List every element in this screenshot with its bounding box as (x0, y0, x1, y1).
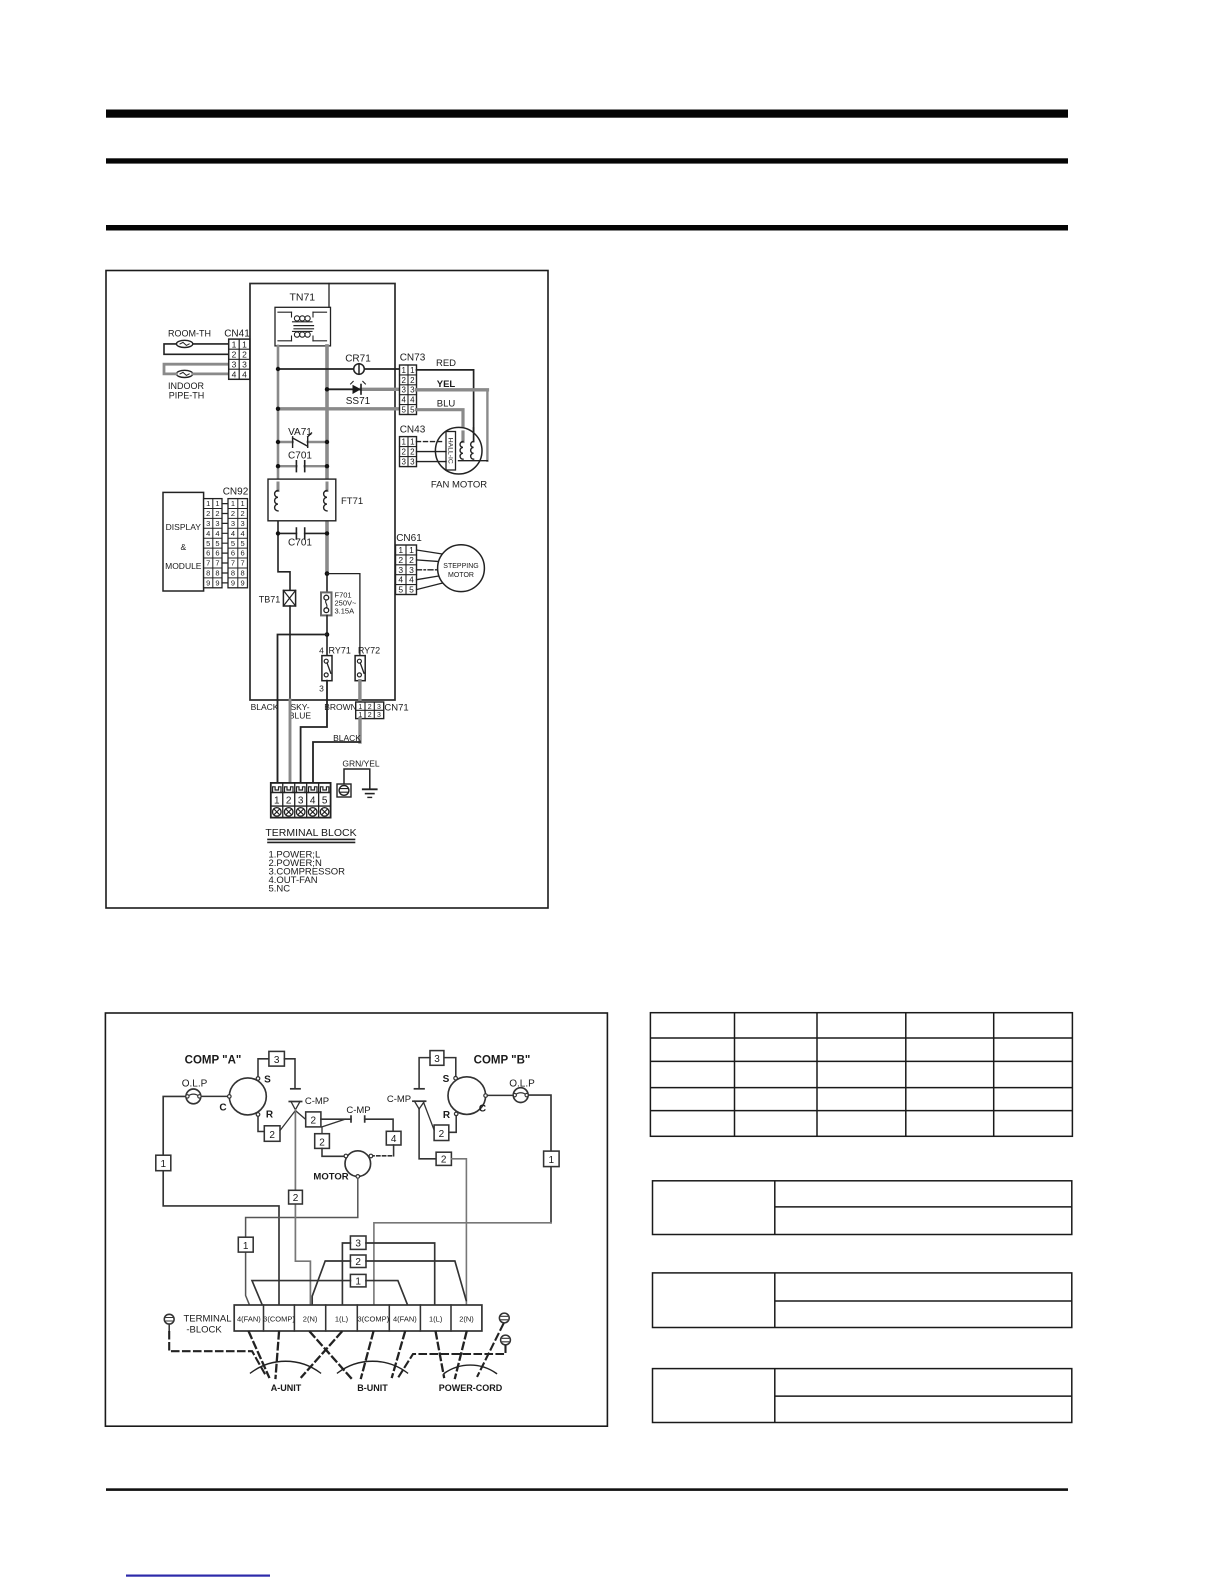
svg-text:CR71: CR71 (345, 354, 371, 365)
svg-text:FT71: FT71 (341, 496, 363, 507)
svg-text:5.NC: 5.NC (269, 884, 291, 895)
svg-text:2(N): 2(N) (459, 1314, 474, 1323)
svg-text:8: 8 (231, 569, 235, 578)
transformer TN71 (275, 292, 331, 346)
svg-text:6: 6 (215, 549, 219, 558)
svg-text:4(FAN): 4(FAN) (237, 1314, 261, 1323)
svg-text:1: 1 (410, 438, 415, 447)
ground symbol (363, 789, 377, 797)
lower diagram frame (105, 1013, 607, 1426)
wire SKY-BLUE to terminal 2 (289, 700, 292, 783)
svg-text:C-MP: C-MP (305, 1096, 329, 1107)
legend terminal block (269, 850, 346, 895)
wire OLP-A left loop to terminal 3(COMP)A (163, 1096, 279, 1305)
capacitor C701 lower (278, 528, 327, 549)
svg-text:4: 4 (310, 795, 316, 806)
svg-text:BROWN: BROWN (324, 702, 357, 712)
svg-text:2: 2 (206, 509, 210, 518)
wire box4 to motor right terminal (393, 1145, 395, 1156)
svg-text:R: R (266, 1110, 274, 1121)
svg-text:3: 3 (355, 1239, 361, 1250)
table 1 grid 5x5 (650, 1013, 1072, 1137)
terminal numbers 1-5 (274, 795, 328, 806)
node dot left bus CR71 (276, 367, 280, 371)
box 3 comp A (269, 1051, 285, 1066)
svg-text:3(COMP): 3(COMP) (357, 1314, 389, 1323)
wire box2 diagonal to C-MP A (280, 1111, 295, 1131)
svg-text:C701: C701 (288, 451, 312, 462)
table 2 (653, 1181, 1072, 1235)
box 2 comp B (434, 1125, 449, 1141)
wire link2 right to 2(N)B (366, 1261, 466, 1301)
box 1 on OLP-A wire (156, 1155, 171, 1171)
svg-text:4: 4 (232, 369, 237, 379)
fuse F701 250V 3.15A (321, 591, 357, 616)
thermistor INDOOR PIPE-TH (176, 370, 192, 377)
wire R to box 2 (258, 1116, 264, 1131)
varistor VA71 (278, 427, 327, 447)
wire motor bottom to terminal 4(FAN)A (246, 1178, 358, 1305)
svg-text:CN43: CN43 (400, 425, 426, 436)
svg-text:6: 6 (231, 549, 235, 558)
thermistor ROOM-TH (176, 340, 192, 347)
motor FAN MOTOR (431, 427, 487, 490)
svg-text:2: 2 (410, 376, 415, 385)
wire RY71 to terminal 3 (301, 681, 327, 783)
svg-text:TB71: TB71 (259, 595, 281, 605)
wire C-MP B down to box 2b (419, 1109, 436, 1159)
svg-text:2: 2 (286, 795, 292, 806)
coil fan motor right winding (471, 442, 474, 460)
wire RED to fan motor (417, 370, 474, 442)
svg-text:3: 3 (377, 712, 381, 719)
wire left bus below FT71 to TB71 (278, 511, 290, 591)
wire link3 right to 1(L)B (366, 1243, 435, 1305)
svg-text:1: 1 (355, 1277, 361, 1288)
svg-text:ROOM-TH: ROOM-TH (168, 329, 211, 339)
wire link3 left to 1(L)A (342, 1243, 350, 1305)
svg-text:6: 6 (241, 549, 245, 558)
svg-text:2: 2 (409, 555, 414, 565)
wire link1 left to 4(FAN)A (252, 1281, 350, 1305)
svg-text:8: 8 (241, 569, 245, 578)
box 2 motor left upper (306, 1112, 321, 1127)
svg-text:1(L): 1(L) (429, 1314, 443, 1323)
box 2 link row (350, 1255, 366, 1268)
wire motor capacitor to box 4 (365, 1119, 393, 1131)
svg-text:COMP "A": COMP "A" (185, 1055, 242, 1067)
svg-text:1(L): 1(L) (335, 1314, 349, 1323)
svg-text:3: 3 (241, 519, 245, 528)
svg-text:2: 2 (410, 448, 415, 457)
svg-text:3: 3 (410, 458, 415, 467)
node dots C701 upper (276, 464, 280, 468)
wire CN71 to terminal 4 (313, 742, 360, 783)
capacitor C701 upper (278, 451, 327, 472)
svg-text:BLACK: BLACK (251, 702, 279, 712)
svg-text:1: 1 (215, 499, 219, 508)
svg-text:9: 9 (206, 579, 210, 588)
svg-text:2: 2 (398, 555, 403, 565)
svg-text:9: 9 (241, 579, 245, 588)
svg-text:C: C (479, 1104, 486, 1115)
box 1 on motor wire (238, 1237, 253, 1252)
wire C-MP A down (295, 1110, 310, 1305)
svg-text:B-UNIT: B-UNIT (357, 1383, 388, 1393)
dashed earth wire left to A-UNIT (169, 1332, 265, 1375)
wire box2c to motor left terminal (322, 1148, 345, 1156)
second rule (106, 158, 1068, 163)
svg-text:CN41: CN41 (224, 329, 250, 340)
wire links between 9pin connectors (222, 504, 228, 583)
svg-text:1: 1 (161, 1159, 167, 1170)
cable bundle arc A-UNIT (251, 1361, 321, 1373)
svg-text:RY71: RY71 (329, 646, 351, 656)
dashed lead 4(FAN)A (249, 1332, 269, 1377)
wire branch to RY72 (327, 574, 360, 656)
svg-text:CN71: CN71 (384, 703, 408, 714)
svg-text:S: S (264, 1075, 271, 1086)
svg-text:2: 2 (439, 1129, 445, 1140)
node dot RY72 branch (325, 571, 330, 576)
connector display side 9pin (204, 499, 222, 588)
wire CN43 pin1 (417, 441, 445, 443)
wire switch arm to box 2c (322, 1119, 345, 1134)
wire CR71 row (278, 368, 400, 370)
wire box3B to C-MP B (419, 1058, 430, 1089)
wire diagonal to box 2b (295, 1111, 305, 1120)
wire RED entering motor (473, 428, 475, 442)
svg-text:C-MP: C-MP (387, 1094, 411, 1105)
connector CN71 (356, 702, 409, 719)
svg-text:STEPPING: STEPPING (443, 563, 478, 570)
upper diagram frame (106, 271, 548, 909)
earth symbol left (164, 1314, 174, 1331)
svg-text:4: 4 (410, 396, 415, 405)
svg-text:3: 3 (401, 458, 406, 467)
svg-text:1: 1 (401, 438, 406, 447)
svg-text:3: 3 (410, 386, 415, 395)
svg-text:O.L.P: O.L.P (182, 1079, 208, 1090)
svg-text:1: 1 (401, 366, 406, 375)
svg-text:CN73: CN73 (400, 353, 426, 364)
box 3 link row (350, 1236, 366, 1250)
svg-text:2: 2 (232, 349, 237, 359)
dashed earth wire right to POWER-CORD (478, 1324, 504, 1376)
svg-text:HALL-IC: HALL-IC (446, 438, 453, 464)
svg-text:9: 9 (231, 579, 235, 588)
box 1 on OLP-B wire (544, 1151, 560, 1167)
wire BLACK to terminal 1 (277, 700, 279, 783)
svg-text:7: 7 (215, 559, 219, 568)
svg-text:4: 4 (398, 575, 403, 585)
svg-text:2: 2 (401, 376, 406, 385)
third rule (106, 225, 1068, 231)
svg-text:1: 1 (231, 499, 235, 508)
svg-text:A-UNIT: A-UNIT (271, 1383, 302, 1393)
dashed earth wire right to B-UNIT (399, 1346, 506, 1378)
wire BLU to fan motor (417, 410, 464, 442)
svg-text:1: 1 (410, 366, 415, 375)
wire TN71 top stub to PCB edge (328, 284, 330, 308)
wire right bus below FT71 (325, 511, 329, 574)
capacitor C-MP motor (346, 1105, 370, 1122)
PCB outline (250, 284, 395, 701)
terminal block 8-way (234, 1305, 482, 1331)
terminal block 5-way (271, 783, 331, 818)
box 2 on C-MP A wire (289, 1190, 303, 1204)
node dots VA71 (276, 440, 280, 444)
filter FT71 (268, 479, 363, 521)
svg-text:SS71: SS71 (346, 396, 371, 407)
svg-text:7: 7 (231, 559, 235, 568)
svg-text:2: 2 (215, 509, 219, 518)
svg-text:1: 1 (398, 545, 403, 555)
dashed lead 4(FAN)B (392, 1332, 405, 1377)
wire SS71 row (327, 388, 352, 390)
svg-text:5: 5 (215, 539, 219, 548)
svg-text:CN92: CN92 (223, 487, 249, 498)
svg-text:TERMINAL: TERMINAL (183, 1314, 231, 1325)
svg-text:GRN/YEL: GRN/YEL (342, 759, 380, 769)
bottom rule (106, 1488, 1068, 1491)
box 3 comp B (430, 1051, 444, 1066)
box 2 comp A (264, 1126, 280, 1142)
box 4 motor right (386, 1131, 401, 1145)
connector CN43 (400, 425, 426, 467)
svg-text:C: C (219, 1103, 226, 1114)
svg-text:2: 2 (355, 1257, 361, 1268)
node dot left bus BLU (276, 407, 280, 411)
svg-text:2: 2 (242, 349, 247, 359)
svg-text:7: 7 (241, 559, 245, 568)
cable bundle arc POWER-CORD (444, 1365, 497, 1373)
svg-text:R: R (443, 1110, 451, 1121)
svg-text:2(N): 2(N) (303, 1314, 318, 1323)
wire OLP-A to comp C (201, 1095, 228, 1097)
wire CN61 pin2 (417, 560, 439, 562)
svg-text:2: 2 (368, 712, 372, 719)
dashed lead 3(COMP)B (361, 1332, 373, 1378)
dashed lead 2(N)B to POWER-CORD (455, 1332, 467, 1378)
svg-text:3: 3 (242, 359, 247, 369)
svg-text:RED: RED (436, 358, 456, 369)
svg-text:9: 9 (215, 579, 219, 588)
svg-text:3: 3 (206, 519, 210, 528)
wire CN43 pin3 (417, 461, 447, 463)
wire right bus from TN71 (325, 346, 329, 491)
svg-text:PIPE-TH: PIPE-TH (169, 391, 205, 401)
svg-text:4: 4 (241, 529, 245, 538)
svg-text:3: 3 (298, 795, 304, 806)
svg-text:2: 2 (241, 509, 245, 518)
svg-text:&: & (180, 542, 186, 552)
svg-text:3: 3 (319, 684, 324, 694)
wire comp B S to box 3 (444, 1058, 456, 1077)
svg-text:5: 5 (206, 539, 210, 548)
wire YEL to fan motor (417, 388, 488, 391)
wire RY72 to CN71 (358, 681, 361, 702)
svg-text:5: 5 (409, 585, 414, 595)
svg-text:4(FAN): 4(FAN) (393, 1314, 417, 1323)
svg-text:4: 4 (409, 575, 414, 585)
wire box2b to motor capacitor (321, 1118, 351, 1120)
svg-text:5: 5 (401, 405, 406, 414)
svg-text:BLU: BLU (437, 399, 456, 410)
compressor motor A (228, 1077, 267, 1117)
svg-text:6: 6 (206, 549, 210, 558)
wire pipe-th to CN41 pin4 (193, 372, 229, 375)
wire CN61 pin3 (417, 569, 438, 571)
wire link1 right to 4(FAN)B (366, 1281, 408, 1305)
node dot BLACK branch (325, 632, 330, 637)
svg-text:4: 4 (231, 529, 235, 538)
wire BLU entering motor (461, 432, 464, 442)
relay RY71 (319, 646, 351, 694)
svg-text:3: 3 (377, 704, 381, 711)
svg-text:4: 4 (401, 396, 406, 405)
IC HALL-IC (446, 432, 456, 471)
svg-text:2: 2 (311, 1116, 317, 1127)
svg-text:3: 3 (274, 1055, 280, 1066)
connector CN73 (400, 353, 426, 415)
svg-text:MOTOR: MOTOR (313, 1172, 348, 1183)
wire CN71 down (358, 719, 361, 742)
svg-text:3.15A: 3.15A (335, 607, 355, 616)
wire BLACK inside PCB (278, 635, 328, 701)
relay RY72 (355, 646, 380, 681)
svg-text:RY72: RY72 (358, 646, 380, 656)
wire BLU row to CN73 pin5 (278, 407, 400, 410)
svg-text:3: 3 (398, 565, 403, 575)
wire CN61 pin4 (417, 576, 439, 580)
triac SS71 (346, 381, 371, 406)
svg-text:3: 3 (434, 1054, 440, 1065)
box 2 motor left lower (315, 1134, 330, 1149)
svg-text:2: 2 (293, 1193, 299, 1204)
svg-text:DISPLAY: DISPLAY (166, 522, 202, 532)
svg-text:3: 3 (401, 386, 406, 395)
title TERMINAL BLOCK (265, 827, 356, 842)
svg-text:4: 4 (391, 1134, 397, 1145)
connector CN92 (223, 487, 249, 588)
protector O.L.P A (182, 1079, 208, 1104)
dashed lead 2(N)A crossing to B-UNIT (310, 1332, 351, 1378)
svg-text:3: 3 (232, 359, 237, 369)
protector O.L.P B (509, 1079, 535, 1103)
earth symbol right upper (499, 1313, 509, 1323)
svg-text:C701: C701 (288, 538, 312, 549)
capacitor C-MP A (289, 1089, 329, 1110)
svg-text:1: 1 (232, 339, 237, 349)
thermal fuse TB71 (259, 590, 296, 606)
box 1 link row (350, 1274, 366, 1287)
svg-text:TN71: TN71 (289, 292, 315, 304)
wire fuse to RY71 (326, 615, 328, 655)
svg-text:FAN MOTOR: FAN MOTOR (431, 480, 487, 491)
wire CN61 pin1 (417, 550, 443, 554)
wire right bus to fuse (326, 574, 328, 593)
wire TB71 to PCB bottom (289, 606, 291, 700)
module DISPLAY &amp; MODULE (163, 492, 204, 591)
top thick rule (106, 110, 1068, 118)
svg-text:5: 5 (322, 795, 328, 806)
motor FAN MOTOR lower (313, 1151, 372, 1183)
connector CN61 (396, 533, 423, 595)
svg-text:POWER-CORD: POWER-CORD (439, 1383, 503, 1393)
svg-text:7: 7 (206, 559, 210, 568)
wire left bus from TN71 (277, 346, 280, 491)
svg-text:CN61: CN61 (396, 533, 422, 544)
wire box2B diagonal to C-MP B (424, 1104, 434, 1131)
svg-text:4: 4 (206, 529, 210, 538)
wire link2 left to 2(N)A (312, 1261, 350, 1305)
svg-text:-BLOCK: -BLOCK (186, 1325, 222, 1336)
svg-text:2: 2 (441, 1155, 447, 1166)
wire coil common bottom (459, 460, 488, 462)
terminal screws (273, 808, 329, 817)
svg-text:2: 2 (231, 509, 235, 518)
wire GRN/YEL (344, 769, 370, 789)
svg-text:1: 1 (358, 704, 362, 711)
dashed lead 1(L)B to POWER-CORD (436, 1332, 444, 1377)
svg-text:5: 5 (241, 539, 245, 548)
wire CN61 pin5 (417, 583, 443, 590)
svg-text:2: 2 (269, 1130, 275, 1141)
svg-text:1: 1 (549, 1155, 555, 1166)
svg-text:MODULE: MODULE (165, 561, 202, 571)
dashed lead 3(COMP)A (276, 1332, 280, 1378)
motor STEPPING MOTOR (438, 545, 485, 592)
svg-text:TERMINAL BLOCK: TERMINAL BLOCK (265, 827, 356, 839)
wire S to box 3 (258, 1059, 269, 1077)
svg-text:8: 8 (206, 569, 210, 578)
table 4 (653, 1369, 1072, 1423)
wire pipe-th to CN41 pin3 (164, 364, 229, 374)
svg-text:1: 1 (206, 499, 210, 508)
svg-text:COMP "B": COMP "B" (474, 1055, 531, 1067)
node dots C701 lower (276, 531, 280, 535)
svg-text:5: 5 (398, 585, 403, 595)
svg-text:BLUE: BLUE (289, 711, 312, 721)
svg-text:1: 1 (242, 339, 247, 349)
wire comp B R to box 2 (449, 1116, 456, 1133)
wire room-th to CN41 pin2 (164, 344, 229, 354)
coil fan motor left winding (460, 442, 463, 460)
svg-text:3: 3 (409, 565, 414, 575)
svg-text:MOTOR: MOTOR (448, 572, 474, 579)
svg-text:5: 5 (410, 405, 415, 414)
wire room-th to CN41 pin1 (193, 343, 229, 345)
earth symbol right lower (501, 1335, 511, 1345)
svg-text:1: 1 (409, 545, 414, 555)
capacitor C-MP B (387, 1089, 426, 1109)
svg-text:2: 2 (319, 1137, 325, 1148)
node dot right bus SS71 (325, 387, 329, 391)
svg-text:2: 2 (401, 448, 406, 457)
box 2 comp B lower (436, 1152, 451, 1165)
svg-text:5: 5 (231, 539, 235, 548)
blue footer link line (126, 1575, 270, 1577)
connector CN41 (224, 329, 250, 380)
dashed lead 1(L)A crossing to A-UNIT (302, 1332, 342, 1377)
wire OLP B right loop to 3(COMP)B (529, 1095, 552, 1223)
svg-text:1: 1 (274, 795, 280, 806)
svg-text:4: 4 (319, 646, 324, 656)
terminal clamp symbols (273, 787, 329, 793)
svg-text:3: 3 (231, 519, 235, 528)
svg-text:2: 2 (368, 704, 372, 711)
